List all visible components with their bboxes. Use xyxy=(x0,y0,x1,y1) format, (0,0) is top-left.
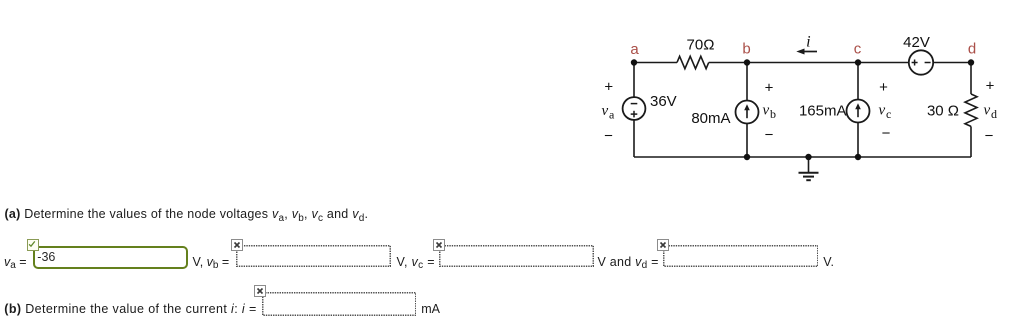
36V source polarity marks xyxy=(631,104,638,118)
branch voltage label vd xyxy=(984,103,998,122)
42V source polarity marks xyxy=(912,60,931,66)
wire node d down to 30ohm resistor xyxy=(970,63,972,95)
voltage source U1 36V circle xyxy=(623,97,646,120)
wire 165mA source to bottom rail xyxy=(857,123,859,158)
wire node a down to 36V source xyxy=(633,63,635,98)
svg-text:v: v xyxy=(879,103,886,119)
voltage source U2 42V circle xyxy=(909,50,933,74)
current source I1 80mA circle xyxy=(736,101,759,124)
correct badge checkmark xyxy=(27,239,39,251)
wire node c down to 165mA source xyxy=(857,63,859,100)
svg-text:v: v xyxy=(984,103,991,119)
question part (a) text xyxy=(5,208,369,221)
input box vb xyxy=(236,245,391,267)
current source I2 165mA circle xyxy=(847,100,870,123)
mA unit label xyxy=(421,303,440,316)
svg-text:−: − xyxy=(985,128,994,145)
svg-text:−: − xyxy=(765,127,774,144)
input box vd xyxy=(663,245,819,267)
current arrow i xyxy=(796,49,817,55)
wire 42V source to node d xyxy=(933,62,971,64)
svg-text:v: v xyxy=(602,103,609,119)
node b junction dot xyxy=(744,59,750,65)
svg-text:c: c xyxy=(854,41,862,58)
resistor R 70ohm xyxy=(677,56,709,68)
svg-text:b: b xyxy=(770,107,776,121)
V, vb = label xyxy=(193,256,230,269)
input box vc xyxy=(439,245,594,267)
resistor R2 30ohm xyxy=(965,94,977,126)
input box current i xyxy=(262,292,417,316)
incorrect badge x for vb xyxy=(231,239,243,251)
bottom junction dot under b xyxy=(744,154,750,160)
node d junction dot xyxy=(968,59,974,65)
answer row: va label xyxy=(4,256,27,269)
165mA source arrow xyxy=(855,103,861,117)
branch voltage label vc xyxy=(879,103,892,122)
wire 30ohm resistor to bottom rail xyxy=(970,126,972,157)
svg-text:c: c xyxy=(886,107,891,121)
question part (b) text xyxy=(4,303,256,316)
svg-text:+: + xyxy=(879,79,888,96)
svg-text:42V: 42V xyxy=(903,34,930,51)
incorrect badge x for vd xyxy=(657,239,669,251)
branch voltage label va xyxy=(602,103,616,122)
wire node b down to 80mA source xyxy=(746,63,748,101)
svg-text:a: a xyxy=(630,41,639,58)
svg-text:d: d xyxy=(968,41,976,58)
svg-text:70Ω: 70Ω xyxy=(687,37,715,54)
svg-text:+: + xyxy=(765,79,774,96)
incorrect badge x for i xyxy=(254,285,266,297)
node a junction dot xyxy=(631,59,637,65)
V. label xyxy=(823,256,834,269)
svg-text:36V: 36V xyxy=(650,93,677,110)
80mA source arrow xyxy=(744,104,750,118)
svg-text:d: d xyxy=(991,107,997,121)
wire 80mA source to bottom rail xyxy=(746,124,748,158)
bottom junction dot under c xyxy=(855,154,861,160)
svg-text:−: − xyxy=(604,128,613,145)
branch voltage label vb xyxy=(763,103,777,122)
ground symbol bars xyxy=(799,173,819,180)
svg-text:30 Ω: 30 Ω xyxy=(927,103,959,120)
ground stub wire xyxy=(808,157,810,172)
correct answer input box va xyxy=(33,246,188,269)
svg-text:i: i xyxy=(806,34,810,51)
incorrect badge x for vc xyxy=(433,239,445,251)
svg-text:b: b xyxy=(742,41,750,58)
ground junction dot xyxy=(805,154,811,160)
wire 36V source to bottom rail xyxy=(633,120,635,157)
svg-text:−: − xyxy=(882,125,891,142)
svg-text:+: + xyxy=(986,77,995,94)
svg-text:a: a xyxy=(609,108,615,122)
svg-text:165mA: 165mA xyxy=(799,103,847,120)
V, vc = label xyxy=(397,256,435,269)
wire bottom rail xyxy=(634,156,971,158)
node c junction dot xyxy=(855,59,861,65)
V and vd = label xyxy=(598,256,659,269)
svg-text:v: v xyxy=(763,103,770,119)
svg-text:80mA: 80mA xyxy=(691,110,730,127)
wire resistor to node b to node c to 42V source xyxy=(709,62,909,64)
svg-text:+: + xyxy=(604,78,613,95)
wire top rail a to resistor 70ohm xyxy=(634,62,677,64)
va value -36 xyxy=(37,251,55,264)
